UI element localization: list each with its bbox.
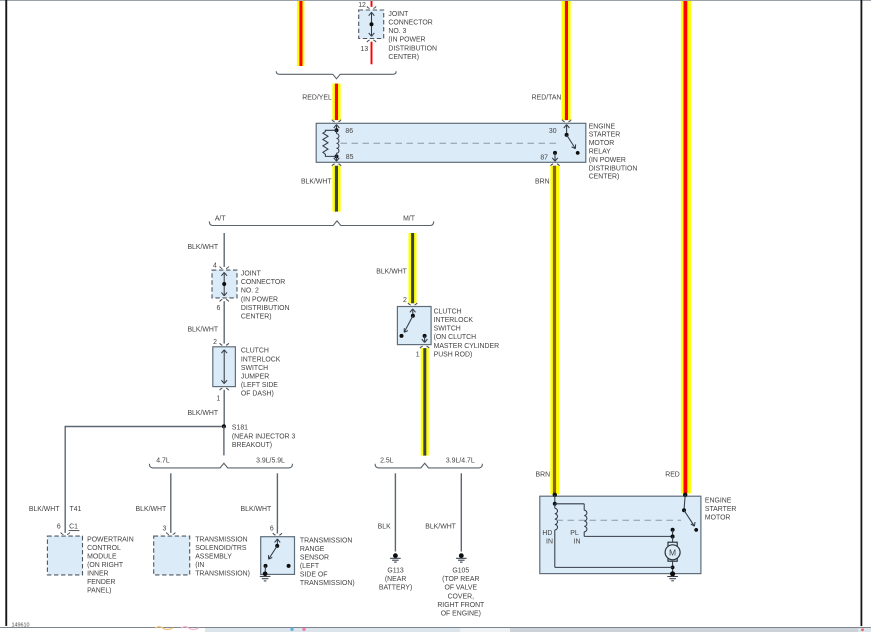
starter internal dashed divider [557,519,682,521]
svg-text:SENSOR: SENSOR [300,554,329,561]
engine starter motor label [705,498,737,522]
starter bottom return wire (HD coil to ground) [555,530,673,568]
transmission range sensor label [300,537,355,587]
connector cup relay pin 30 [562,120,571,122]
starter RED terminal dot [683,493,687,497]
svg-text:CLUTCH: CLUTCH [241,348,269,355]
relay resistor (parallel with coil) [323,130,337,156]
joint connector NO.3 internal arrows [369,12,375,36]
split brace 2.5L - 3.9L/4.7L [375,463,482,468]
splice S181 label [232,425,296,450]
joint connector NO.3 box [359,10,384,39]
svg-text:INNER: INNER [87,571,108,578]
connector cup relay pin 87 [550,164,559,166]
clutch switch entry arrow [410,309,416,316]
svg-text:BLK: BLK [378,524,391,531]
svg-text:85: 85 [346,154,354,161]
wire BLK to G113 [394,473,396,551]
svg-text:FENDER: FENDER [87,579,115,586]
svg-text:3.9L/5.9L: 3.9L/5.9L [256,458,285,465]
TRS free contact dot [287,564,291,568]
svg-text:RED/TAN: RED/TAN [532,94,562,101]
wire BLK/WHT A/T branch [223,233,225,267]
svg-text:CONNECTOR: CONNECTOR [241,279,285,286]
svg-text:CONNECTOR: CONNECTOR [388,20,432,27]
svg-text:BLK/WHT: BLK/WHT [187,410,218,417]
engine starter motor box [540,496,701,573]
svg-text:DISTRIBUTION: DISTRIBUTION [388,45,437,52]
svg-text:30: 30 [549,128,557,135]
starter case ground [667,571,678,581]
wire BLK/WHT JC2 to jumper [223,301,225,344]
svg-text:POWERTRAIN: POWERTRAIN [87,537,134,544]
joint connector NO.2 junction dot [222,282,226,286]
svg-text:PL: PL [570,530,579,537]
jumper internal double arrow [221,350,227,384]
svg-text:JOINT: JOINT [241,271,262,278]
relay coil (between 86 and 85) [335,128,339,158]
wire BLK/WHT relay 85 to A/T-M/T brace (highlighted) [332,166,340,212]
wire into joint connector no.3 pin 12 [371,0,373,7]
svg-text:(NEAR: (NEAR [385,576,406,583]
svg-text:ENGINE: ENGINE [589,123,616,130]
motor to ground wire with junction dot [671,561,675,573]
wire RED/TAN to relay pin 30 (highlighted) [562,0,571,120]
svg-text:2: 2 [213,339,217,346]
svg-text:IN: IN [546,539,553,546]
powertrain control module box [47,536,82,575]
transmission solenoid label [195,537,250,578]
connector cup pin 13 [367,40,376,42]
svg-text:DISTRIBUTION: DISTRIBUTION [589,165,638,172]
connector cup JC2 pin 6 [220,299,229,301]
starter HD IN coil [555,504,558,530]
relay pin 30 arrow [564,125,570,135]
relay pin 87 dot and arrow (exit) [552,151,558,161]
svg-text:6: 6 [216,305,220,312]
clutch interlock switch jumper box [213,347,236,387]
svg-text:OF DASH): OF DASH) [241,391,274,398]
starter PL coil to solenoid contact wire [584,532,672,537]
svg-text:(NEAR INJECTOR 3: (NEAR INJECTOR 3 [232,433,296,440]
svg-text:SWITCH: SWITCH [241,365,268,372]
svg-text:CENTER): CENTER) [241,314,272,321]
svg-text:CENTER): CENTER) [589,174,620,181]
connector cup pin 12 [367,6,376,8]
connector cup clutch switch pin 1 [420,346,429,348]
svg-text:SOLENOID/TRS: SOLENOID/TRS [195,545,247,552]
svg-text:MOTOR: MOTOR [589,140,615,147]
relay internal dashed divider [341,142,561,144]
wire BLK/WHT M/T branch (highlighted) [409,233,417,303]
svg-text:RIGHT FRONT: RIGHT FRONT [437,602,485,609]
svg-text:MODULE: MODULE [87,554,117,561]
svg-text:STARTER: STARTER [589,132,621,139]
splice S181 dot [222,424,226,428]
starter PL IN coil [584,510,587,532]
svg-text:HD: HD [542,530,552,537]
svg-text:JUMPER: JUMPER [241,374,269,381]
transmission range sensor box [261,537,295,575]
wire BLK/WHT clutch switch to brace (highlighted) [421,348,429,456]
svg-text:12: 12 [358,2,366,9]
wire BLK/WHT 3.9L/5.9L branch [276,473,278,533]
split brace 4.7L - 3.9L/5.9L [149,463,292,468]
svg-text:(IN POWER: (IN POWER [589,157,626,164]
svg-text:TRANSMISSION: TRANSMISSION [195,537,247,544]
svg-text:4: 4 [213,262,217,269]
clutch switch blade [400,314,415,338]
svg-text:ASSEMBLY: ASSEMBLY [195,554,232,561]
svg-text:G113: G113 [387,568,404,575]
svg-text:TRANSMISSION: TRANSMISSION [300,537,352,544]
svg-text:STARTER: STARTER [705,506,737,513]
joint connector NO.2 box [212,270,237,298]
HD IN label [542,530,553,546]
joint connector NO.3 junction dot [370,22,374,26]
svg-text:COVER,: COVER, [448,593,475,600]
svg-text:87: 87 [540,154,548,161]
svg-text:BATTERY): BATTERY) [379,585,412,592]
svg-text:(IN POWER: (IN POWER [241,296,278,303]
svg-text:OF VALVE: OF VALVE [444,585,477,592]
svg-text:INTERLOCK: INTERLOCK [434,317,474,324]
powertrain control module label [87,537,134,595]
svg-text:1: 1 [416,351,420,358]
svg-text:NO. 2: NO. 2 [241,288,259,295]
wire BLK/WHT 4.7L branch [170,473,172,533]
svg-text:SIDE OF: SIDE OF [300,571,328,578]
svg-text:JOINT: JOINT [388,11,409,18]
relay pin 85 arrow (exit) [334,156,340,161]
svg-text:(ON CLUTCH: (ON CLUTCH [434,334,477,341]
wire S181 to PCM (horizontal + vertical) [65,426,222,533]
svg-text:SWITCH: SWITCH [434,326,461,333]
svg-text:6: 6 [57,524,61,531]
TRS entry arrow [275,539,281,546]
svg-text:CLUTCH: CLUTCH [434,308,462,315]
svg-text:BLK/WHT: BLK/WHT [241,506,272,513]
relay label [589,123,638,180]
connector cup jumper pin 2 [220,343,229,345]
connector cup JC2 pin 4 [220,267,229,269]
svg-text:RANGE: RANGE [300,546,325,553]
svg-text:CENTER): CENTER) [388,54,419,61]
starter PL IN branch wire [555,504,584,510]
wire RED to engine starter motor (highlighted) [681,0,691,494]
starter internal wire from BRN terminal [554,495,556,504]
svg-text:(IN: (IN [195,562,204,569]
wire BLK/WHT to G105 [460,473,462,551]
svg-text:MOTOR: MOTOR [705,515,731,522]
svg-text:RELAY: RELAY [589,149,611,156]
svg-text:M/T: M/T [403,216,416,223]
TRS switch blade [264,544,280,568]
svg-text:T41: T41 [70,506,82,513]
svg-text:BREAKOUT): BREAKOUT) [232,442,272,449]
wire BLK/WHT jumper to S181 [223,390,225,426]
svg-text:RED: RED [665,472,680,479]
page frame (not labeled content) [0,0,871,1]
svg-text:BLK/WHT: BLK/WHT [376,269,407,276]
relay pin 86 arrow [334,125,340,131]
relay switch blade 30-87 [565,133,580,155]
svg-text:4.7L: 4.7L [156,458,170,465]
svg-text:(ON RIGHT: (ON RIGHT [87,562,124,569]
svg-text:TRANSMISSION): TRANSMISSION) [195,571,250,578]
ground G113 [390,553,401,562]
jumper label [241,348,281,398]
wire from joint connector no.3 pin 13 [371,42,373,65]
clutch interlock switch box [397,307,431,345]
connector cup clutch switch pin 2 [408,303,417,305]
svg-text:PUSH ROD): PUSH ROD) [434,351,473,358]
relay K1 ENGINE STARTER MOTOR RELAY box [316,123,586,162]
svg-text:BLK/WHT: BLK/WHT [301,179,332,186]
svg-text:(LEFT: (LEFT [300,563,320,570]
svg-text:86: 86 [345,128,353,135]
starter BRN terminal dot [553,493,557,497]
PL IN label [570,530,580,546]
svg-text:S181: S181 [232,425,248,432]
motor M symbol [665,537,680,562]
svg-text:(TOP REAR: (TOP REAR [442,576,479,583]
svg-text:G105: G105 [452,568,469,575]
svg-text:M: M [669,548,676,558]
svg-text:BLK/WHT: BLK/WHT [136,506,167,513]
svg-text:BLK/WHT: BLK/WHT [187,327,218,334]
wire S181 down to engine brace [223,426,225,455]
svg-text:OF ENGINE): OF ENGINE) [441,611,481,618]
svg-text:3: 3 [163,525,167,532]
connector cup TRS pin 6 [273,533,282,535]
joint connector NO.2 internal arrows [221,272,227,295]
wire RED/YEL to relay pin 86 (highlighted) [332,84,340,121]
clutch interlock switch label [434,308,499,358]
starter internal junction dot [553,502,557,506]
wire BRN relay 87 to starter motor (highlighted) [550,166,559,495]
connector C1 label with underline [69,524,80,531]
connector cup solenoid pin 3 [166,533,175,535]
bottom edge / taskbar sliver [0,627,871,632]
svg-text:BRN: BRN [536,472,551,479]
svg-text:A/T: A/T [215,216,227,223]
svg-text:C1: C1 [69,524,78,531]
connector cup relay pin 85 [332,164,341,166]
svg-text:13: 13 [361,46,369,53]
starter switch contact dots [671,528,675,539]
svg-text:BLK/WHT: BLK/WHT [187,244,218,251]
svg-text:1: 1 [217,396,221,403]
svg-text:2.5L: 2.5L [380,458,394,465]
wire RED/YEL feed (highlighted) [297,0,304,66]
connector cup relay pin 86 [332,120,341,122]
svg-text:BLK/WHT: BLK/WHT [29,506,60,513]
ground G113 label [379,568,412,592]
joint connector NO.2 label [241,271,290,321]
svg-text:PANEL): PANEL) [87,588,111,595]
svg-text:DISTRIBUTION: DISTRIBUTION [241,305,290,312]
split brace A/T - M/T [209,221,433,226]
connector cup jumper pin 1 [220,388,229,390]
merge brace (two feeds into RED/YEL) [276,71,396,79]
svg-text:NO. 3: NO. 3 [388,28,406,35]
connector cup PCM pin 6 [61,533,70,535]
svg-text:INTERLOCK: INTERLOCK [241,356,281,363]
clutch switch output contact and exit arrow [422,334,428,343]
svg-text:(IN POWER: (IN POWER [388,37,425,44]
svg-text:RED/YEL: RED/YEL [302,94,332,101]
svg-text:IN: IN [574,539,581,546]
svg-text:MASTER CYLINDER: MASTER CYLINDER [434,343,499,350]
TRS ground connection [260,566,271,581]
svg-text:(LEFT SIDE: (LEFT SIDE [241,382,278,389]
transmission solenoid/TRS assembly box [154,536,190,575]
svg-text:CONTROL: CONTROL [87,545,121,552]
svg-text:ENGINE: ENGINE [705,498,732,505]
svg-text:BLK/WHT: BLK/WHT [425,524,456,531]
ground G105 label [437,568,485,618]
svg-text:BRN: BRN [535,179,550,186]
svg-text:6: 6 [270,525,274,532]
ground G105 [456,553,467,562]
svg-text:3.9L/4.7L: 3.9L/4.7L [446,458,475,465]
svg-text:2: 2 [403,297,407,304]
svg-text:TRANSMISSION): TRANSMISSION) [300,580,355,587]
starter solenoid switch blade [682,495,698,532]
